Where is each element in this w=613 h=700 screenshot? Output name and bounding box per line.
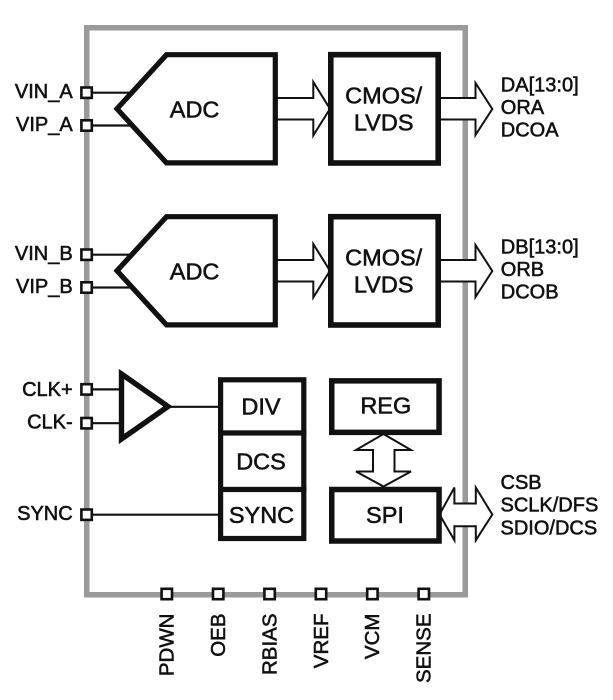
pin VIP_B <box>81 282 91 292</box>
block REG <box>332 381 439 433</box>
wire VIP_A to ADC A <box>87 124 142 126</box>
clock buffer amplifier <box>122 374 169 439</box>
block ADC B <box>117 217 275 325</box>
svg-text:OEB: OEB <box>207 614 230 657</box>
wire CLK+ to clock buffer <box>87 388 124 390</box>
pin PDWN <box>162 589 172 599</box>
wire CLK- to clock buffer <box>87 422 124 424</box>
svg-text:SDIO/DCS: SDIO/DCS <box>501 517 598 539</box>
svg-text:ADC: ADC <box>170 97 220 123</box>
block ADC A <box>117 55 275 163</box>
pin SENSE <box>419 589 429 599</box>
svg-text:SCLK/DFS: SCLK/DFS <box>501 495 599 517</box>
pin VCM <box>367 589 377 599</box>
pin VIN_B <box>81 250 91 260</box>
pin OEB <box>213 589 223 599</box>
bus arrow ADC B to CMOS/LVDS B <box>273 244 330 297</box>
svg-text:SYNC: SYNC <box>229 502 294 528</box>
svg-text:SYNC: SYNC <box>17 503 73 525</box>
svg-text:LVDS: LVDS <box>354 272 414 298</box>
pin CLK+ <box>81 384 91 394</box>
pin CLK- <box>81 418 91 428</box>
block CMOS/LVDS A <box>331 55 438 163</box>
svg-text:DB[13:0]: DB[13:0] <box>501 236 579 258</box>
wire VIP_B to ADC B <box>87 286 142 288</box>
svg-text:CSB: CSB <box>501 472 542 494</box>
svg-text:SPI: SPI <box>366 502 404 528</box>
svg-text:VIP_B: VIP_B <box>16 276 73 298</box>
double arrow SPI external (crosses boundary) <box>440 488 493 541</box>
wire SYNC pin to SYNC block <box>87 514 220 516</box>
bus arrow ADC A to CMOS/LVDS A <box>273 82 330 135</box>
wire VIN_A to ADC A <box>87 92 140 94</box>
svg-text:VREF: VREF <box>310 614 333 669</box>
svg-text:LVDS: LVDS <box>354 110 414 136</box>
svg-text:DCS: DCS <box>236 449 286 475</box>
pin VIN_A <box>81 88 91 98</box>
pin VIP_A <box>81 120 91 130</box>
svg-text:DCOB: DCOB <box>501 282 559 304</box>
pin RBIAS <box>264 589 274 599</box>
wire clock buffer to DIV <box>168 406 220 408</box>
block DIV <box>221 380 304 433</box>
block DCS <box>221 433 304 490</box>
wire VIN_B to ADC B <box>87 254 140 256</box>
svg-text:REG: REG <box>360 393 411 419</box>
svg-text:VIP_A: VIP_A <box>16 114 73 136</box>
double arrow REG-SPI <box>356 434 411 487</box>
svg-text:DCOA: DCOA <box>501 120 559 142</box>
svg-text:VCM: VCM <box>361 614 384 660</box>
output bus arrow A (crosses boundary) <box>439 83 492 135</box>
svg-text:DA[13:0]: DA[13:0] <box>501 74 579 96</box>
block SYNC <box>221 490 304 539</box>
pin SYNC <box>81 510 91 520</box>
block CMOS/LVDS B <box>331 217 438 325</box>
svg-text:CLK+: CLK+ <box>22 379 73 401</box>
svg-text:ADC: ADC <box>170 259 220 285</box>
svg-text:ORA: ORA <box>501 97 545 119</box>
svg-text:RBIAS: RBIAS <box>258 614 281 676</box>
output bus arrow B (crosses boundary) <box>439 245 492 297</box>
chip boundary (gray border) <box>87 28 466 595</box>
svg-text:CLK-: CLK- <box>27 412 73 434</box>
svg-text:PDWN: PDWN <box>156 614 179 677</box>
svg-text:VIN_A: VIN_A <box>15 81 73 103</box>
svg-text:SENSE: SENSE <box>413 614 436 684</box>
svg-text:VIN_B: VIN_B <box>15 243 73 265</box>
svg-text:CMOS/: CMOS/ <box>345 244 423 270</box>
svg-text:CMOS/: CMOS/ <box>345 82 423 108</box>
svg-text:ORB: ORB <box>501 259 544 281</box>
svg-text:DIV: DIV <box>241 393 281 419</box>
pin VREF <box>316 589 326 599</box>
block SPI <box>332 490 439 542</box>
